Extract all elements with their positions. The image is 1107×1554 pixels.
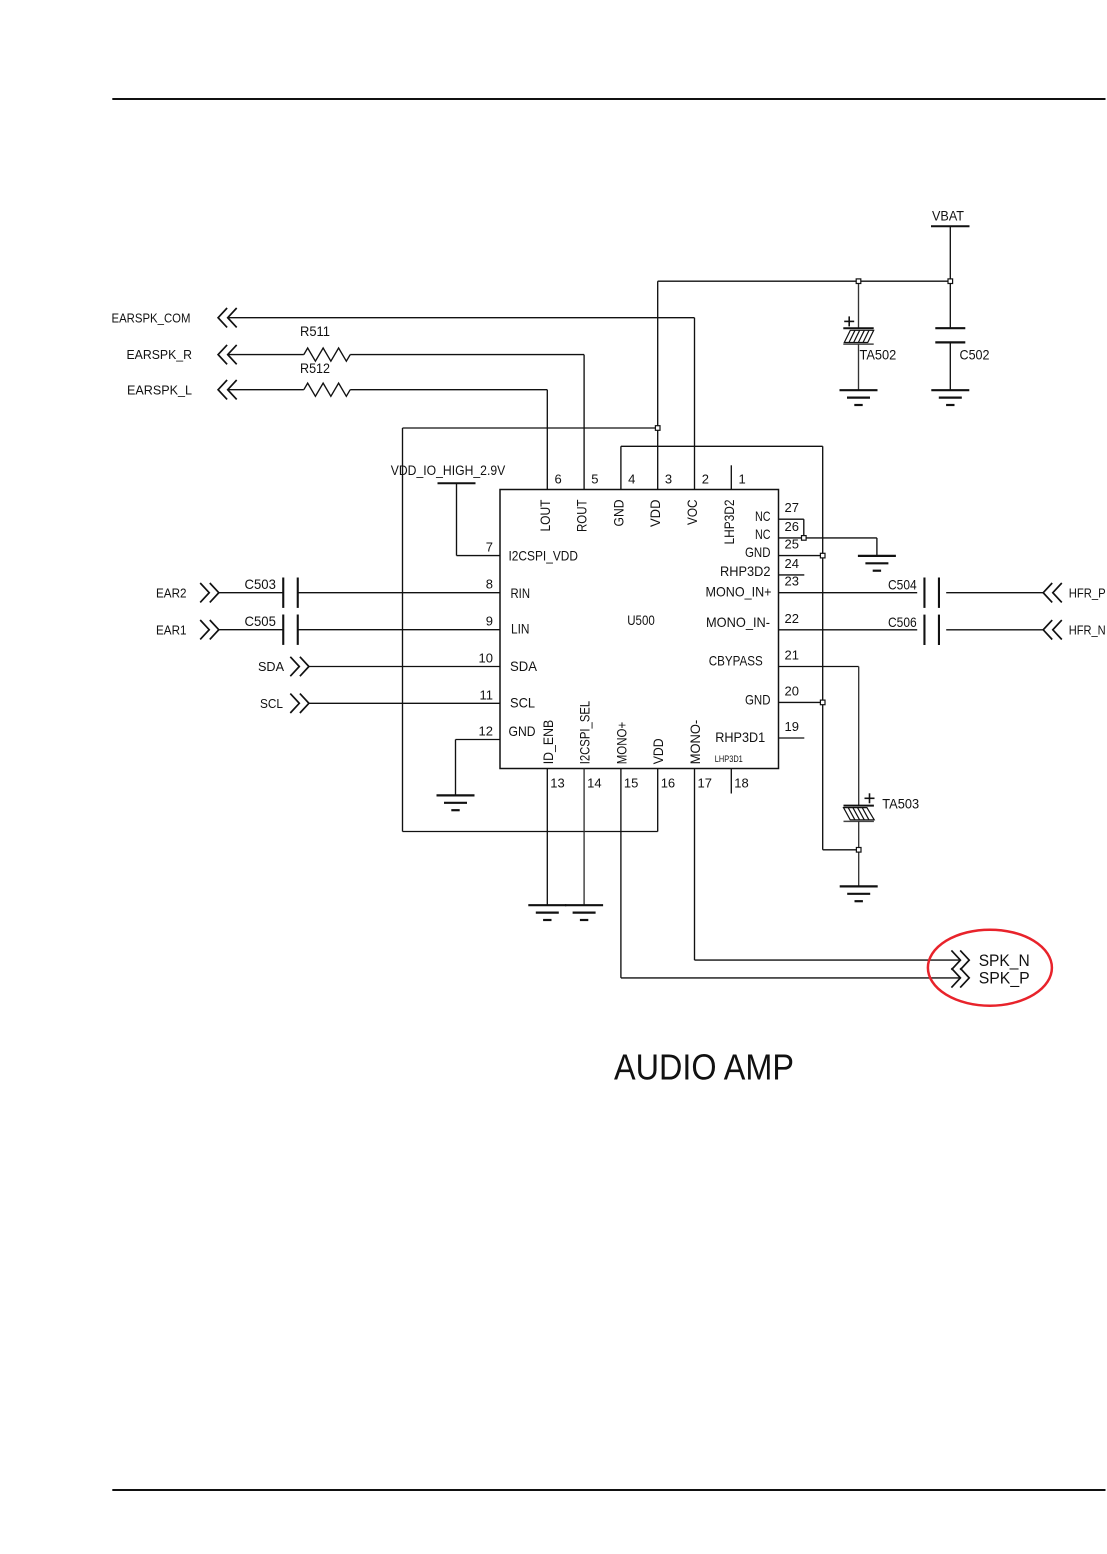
- label R512: [300, 360, 330, 376]
- highlight ellipse SPK: [928, 930, 1052, 1006]
- wire pin 22 to C506: [779, 629, 918, 631]
- wire pin 26 NC: [779, 537, 804, 539]
- svg-text:17: 17: [698, 776, 712, 791]
- pin 20 stub wire: [779, 701, 823, 703]
- svg-text:C502: C502: [960, 347, 990, 363]
- port HFR_P: [1043, 583, 1106, 602]
- svg-text:EAR2: EAR2: [156, 585, 187, 600]
- svg-text:ROUT: ROUT: [575, 500, 590, 533]
- wire C503 to pin 8: [297, 592, 500, 594]
- svg-text:VOC: VOC: [685, 499, 700, 525]
- junction VBAT/TA502: [856, 279, 861, 284]
- svg-text:10: 10: [479, 651, 493, 666]
- svg-text:VDD_IO_HIGH_2.9V: VDD_IO_HIGH_2.9V: [391, 463, 506, 478]
- svg-text:I2CSPI_SEL: I2CSPI_SEL: [578, 700, 593, 764]
- junction NC pins: [802, 536, 807, 541]
- pin labels bottom: [541, 700, 703, 764]
- svg-text:13: 13: [550, 776, 564, 791]
- svg-text:HFR_P: HFR_P: [1069, 585, 1106, 600]
- wire EARSPK_R right: [350, 355, 584, 490]
- port EARSPK_R: [127, 345, 237, 364]
- wire pin 4 GND up: [620, 446, 622, 489]
- svg-text:23: 23: [785, 574, 799, 589]
- svg-text:LHP3D1: LHP3D1: [715, 754, 743, 765]
- pin numbers top 6-1: [555, 471, 746, 486]
- wire C505 to pin 9: [297, 629, 500, 631]
- port SPK_N: [951, 950, 1029, 970]
- svg-text:U500: U500: [627, 613, 655, 628]
- wire EARSPK_R left: [228, 354, 304, 356]
- wire pin 12 to ground: [456, 740, 501, 796]
- wire SDA to pin 10: [309, 666, 500, 668]
- svg-text:GND: GND: [611, 499, 626, 526]
- capacitor TA503: [844, 793, 875, 821]
- title AUDIO AMP: [614, 1047, 794, 1088]
- wire VBAT horizontal rail: [658, 280, 951, 282]
- pin numbers bottom 13-18: [550, 776, 748, 791]
- pin numbers right 27-19: [785, 500, 799, 734]
- label TA503: [882, 795, 919, 811]
- wire VDD box bottom: [403, 831, 658, 833]
- wire VDD box left: [402, 428, 404, 832]
- svg-text:C505: C505: [245, 613, 277, 629]
- svg-text:RHP3D1: RHP3D1: [715, 729, 765, 745]
- port EAR2: [156, 583, 219, 602]
- svg-text:22: 22: [785, 611, 799, 626]
- resistor R512: [304, 383, 350, 396]
- svg-text:GND: GND: [509, 723, 536, 739]
- svg-text:CBYPASS: CBYPASS: [709, 653, 763, 669]
- label C502: [960, 347, 990, 363]
- svg-text:26: 26: [785, 519, 799, 534]
- svg-text:8: 8: [486, 577, 493, 592]
- svg-text:MONO_IN+: MONO_IN+: [706, 584, 772, 600]
- svg-text:24: 24: [785, 556, 799, 571]
- svg-text:16: 16: [661, 776, 675, 791]
- junction TA503 / GND: [856, 848, 861, 853]
- pin 18 stub: [730, 769, 732, 794]
- svg-text:19: 19: [785, 719, 799, 734]
- pin 19 stub: [779, 737, 805, 739]
- svg-text:ID_ENB: ID_ENB: [541, 720, 556, 765]
- wire C502 top lead: [949, 281, 951, 328]
- svg-text:C506: C506: [888, 614, 917, 630]
- pin 25 stub wire: [779, 555, 823, 557]
- port SCL: [260, 694, 309, 713]
- power symbol VDD_IO_HIGH_2.9V: [391, 463, 506, 483]
- svg-text:14: 14: [587, 776, 601, 791]
- ground pin 14: [565, 905, 603, 920]
- svg-text:SPK_P: SPK_P: [979, 970, 1030, 988]
- wire pin 14 down: [583, 769, 585, 906]
- ground TA503: [840, 886, 878, 901]
- wire GND bottom to TA503: [823, 849, 859, 851]
- pin numbers left 7-12: [479, 540, 493, 739]
- wire NC to ground: [804, 538, 877, 556]
- ground C502: [931, 390, 969, 405]
- port EARSPK_COM: [112, 308, 237, 327]
- svg-text:EARSPK_R: EARSPK_R: [127, 347, 193, 362]
- wire VDD riser to pin 16: [657, 769, 659, 832]
- junction GND pin 25: [820, 553, 825, 558]
- label TA502: [860, 347, 897, 363]
- ground pin 13: [528, 905, 566, 920]
- svg-text:GND: GND: [745, 544, 771, 560]
- capacitor C505: [283, 615, 298, 645]
- label C506: [888, 614, 917, 630]
- wire GND right vertical: [822, 446, 824, 850]
- svg-text:2: 2: [702, 471, 709, 486]
- svg-text:GND: GND: [745, 691, 771, 707]
- pin 1 stub: [730, 465, 732, 489]
- wire C506 to HFR_N: [946, 629, 1043, 631]
- svg-text:NC: NC: [755, 508, 771, 524]
- label LHP3D1 part: [715, 754, 743, 765]
- svg-text:R511: R511: [300, 323, 330, 339]
- label C505: [245, 613, 277, 629]
- pin labels top: [538, 499, 737, 544]
- svg-text:VDD: VDD: [648, 499, 663, 527]
- svg-text:LHP3D2: LHP3D2: [722, 500, 737, 545]
- svg-text:C503: C503: [245, 576, 277, 592]
- svg-text:27: 27: [785, 500, 799, 515]
- svg-text:MONO+: MONO+: [614, 722, 629, 765]
- svg-text:VDD: VDD: [651, 738, 666, 764]
- capacitor TA502: [843, 316, 873, 344]
- svg-text:12: 12: [479, 724, 493, 739]
- pin labels right: [706, 508, 772, 745]
- label C504: [888, 577, 917, 593]
- wire C502 bottom lead: [949, 343, 951, 391]
- svg-text:SCL: SCL: [510, 695, 535, 711]
- svg-text:RHP3D2: RHP3D2: [720, 563, 771, 579]
- svg-text:SDA: SDA: [510, 658, 538, 674]
- wire SCL to pin 11: [309, 702, 500, 704]
- wire TA503 to ground: [858, 850, 860, 887]
- svg-text:SCL: SCL: [260, 696, 283, 711]
- svg-text:1: 1: [739, 471, 746, 486]
- svg-text:EARSPK_COM: EARSPK_COM: [112, 310, 191, 325]
- capacitor C502: [935, 328, 965, 342]
- svg-text:HFR_N: HFR_N: [1069, 622, 1106, 637]
- svg-text:EARSPK_L: EARSPK_L: [127, 382, 192, 397]
- wire EAR2: [219, 592, 284, 594]
- svg-text:18: 18: [734, 776, 748, 791]
- svg-text:TA502: TA502: [860, 347, 897, 363]
- wire EAR1: [219, 629, 284, 631]
- svg-text:SPK_N: SPK_N: [979, 952, 1030, 970]
- wire VDD_IO to pin 7: [457, 483, 501, 555]
- wire TA502 top lead: [858, 281, 860, 328]
- svg-text:C504: C504: [888, 577, 917, 593]
- horizontal rule top: [112, 98, 1105, 100]
- capacitor C504: [924, 578, 939, 608]
- wire pin 21 CBYPASS: [779, 667, 859, 806]
- svg-text:MONO_IN-: MONO_IN-: [706, 614, 770, 630]
- horizontal rule bottom: [112, 1489, 1105, 1491]
- svg-text:LIN: LIN: [511, 621, 530, 637]
- svg-text:I2CSPI_VDD: I2CSPI_VDD: [509, 548, 579, 564]
- resistor R511: [304, 348, 350, 361]
- label U500: [627, 613, 655, 628]
- svg-text:3: 3: [665, 471, 672, 486]
- ground NC net: [858, 556, 896, 571]
- wire pin 15 MONO+ to SPK_P: [621, 769, 961, 978]
- wire VBAT vertical: [949, 226, 951, 281]
- junction GND pin 20: [820, 700, 825, 705]
- wire EARSPK_L left: [228, 389, 304, 391]
- port HFR_N: [1043, 620, 1106, 639]
- wire EARSPK_L right: [350, 390, 547, 490]
- wire EARSPK_COM: [228, 318, 695, 490]
- port EARSPK_L: [127, 380, 237, 399]
- capacitor C503: [283, 578, 298, 608]
- power symbol VBAT: [931, 208, 970, 226]
- port SPK_P: [951, 968, 1029, 987]
- svg-text:11: 11: [480, 687, 494, 702]
- wire GND top across: [621, 445, 823, 447]
- svg-text:VBAT: VBAT: [932, 208, 964, 223]
- svg-text:25: 25: [785, 537, 799, 552]
- svg-text:TA503: TA503: [882, 795, 919, 811]
- wire pin 23 to C504: [779, 592, 918, 594]
- ground pin 12: [437, 795, 475, 810]
- svg-text:4: 4: [628, 471, 635, 486]
- svg-text:21: 21: [785, 648, 799, 663]
- ground TA502: [840, 390, 878, 405]
- svg-text:R512: R512: [300, 360, 330, 376]
- label R511: [300, 323, 330, 339]
- junction VBAT/C502: [948, 279, 953, 284]
- svg-text:MONO-: MONO-: [688, 720, 703, 765]
- svg-text:15: 15: [624, 776, 638, 791]
- svg-text:NC: NC: [755, 526, 771, 542]
- port EAR1: [156, 620, 219, 639]
- svg-text:9: 9: [486, 614, 493, 629]
- wire pin 17 MONO- to SPK_N: [695, 769, 961, 961]
- wire TA503 bottom lead: [858, 821, 860, 850]
- wire VDD down to pin 3: [657, 281, 659, 489]
- capacitor C506: [924, 615, 939, 645]
- svg-text:LOUT: LOUT: [538, 500, 553, 532]
- op-amp U500 body: [500, 490, 779, 769]
- svg-text:7: 7: [486, 540, 493, 555]
- svg-text:AUDIO AMP: AUDIO AMP: [614, 1047, 794, 1088]
- wire C504 to HFR_P: [946, 592, 1043, 594]
- label C503: [245, 576, 277, 592]
- junction VDD box / pin 3: [655, 426, 660, 431]
- svg-text:6: 6: [555, 471, 562, 486]
- pin 24 stub: [779, 574, 805, 576]
- svg-text:5: 5: [591, 471, 598, 486]
- svg-text:SDA: SDA: [258, 659, 284, 674]
- svg-text:EAR1: EAR1: [156, 622, 187, 637]
- pin labels left: [509, 548, 579, 740]
- wire pin 13 down: [546, 769, 548, 906]
- svg-text:20: 20: [785, 683, 799, 698]
- wire VDD box top: [403, 427, 658, 429]
- port SDA: [258, 657, 309, 676]
- wire pin 27 NC: [779, 519, 804, 538]
- wire TA502 bottom lead: [858, 344, 860, 390]
- svg-text:RIN: RIN: [511, 585, 531, 601]
